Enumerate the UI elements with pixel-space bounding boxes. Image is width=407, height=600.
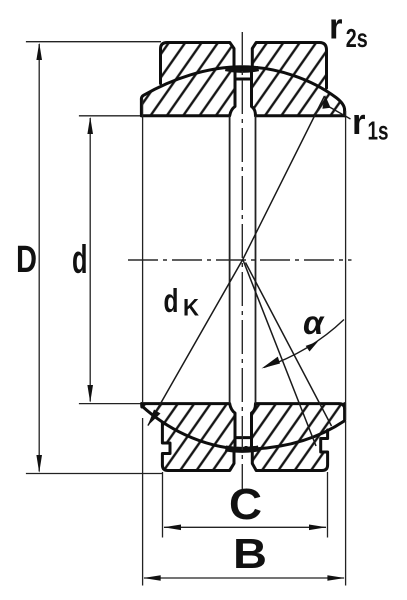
inner ring bottom faces xyxy=(140,404,143,407)
dimension D xyxy=(26,42,162,474)
r1s leader xyxy=(330,107,351,119)
B extension upper parts (thin lines over bearing region) xyxy=(143,99,346,420)
bore void lube hole walls xyxy=(230,116,256,404)
svg-text:C: C xyxy=(229,480,262,529)
svg-text:r: r xyxy=(329,6,343,47)
dimension B xyxy=(143,418,346,586)
svg-text:B: B xyxy=(233,530,267,577)
bearing top half hatched section (outer ring top block + inner ring top section) xyxy=(141,67,344,116)
thick outlines: bottom xyxy=(142,404,345,471)
alpha curved arrow xyxy=(264,320,344,368)
svg-text:d: d xyxy=(164,282,179,319)
lube groove band top xyxy=(226,69,259,71)
outer ring bottom block outline right xyxy=(252,430,327,471)
inner ring lube crossbar bottom xyxy=(235,436,252,439)
bottom sphere arc xyxy=(142,406,345,449)
centerlines xyxy=(128,32,352,492)
svg-text:D: D xyxy=(16,239,37,281)
svg-text:α: α xyxy=(303,304,325,341)
inner ring top faces xyxy=(140,99,143,116)
svg-text:d: d xyxy=(72,238,88,282)
svg-text:1s: 1s xyxy=(368,116,389,146)
outer ring top block outline xyxy=(161,43,235,84)
bore top line with lube flare xyxy=(141,114,229,117)
thick outlines: top xyxy=(141,43,344,116)
alpha rays xyxy=(243,260,332,447)
svg-text:2s: 2s xyxy=(346,23,368,53)
lube groove band bottom xyxy=(226,448,259,450)
top sphere arc xyxy=(141,67,344,110)
dimension d xyxy=(79,116,140,404)
dK diagonal line (sphere diameter) xyxy=(148,96,325,426)
dimension C xyxy=(163,472,328,538)
bore bottom line with lube flare xyxy=(142,402,230,405)
inner ring lube crossbar top xyxy=(235,78,252,81)
svg-text:r: r xyxy=(352,101,366,142)
outer ring bottom block outline left xyxy=(162,423,234,471)
svg-text:K: K xyxy=(183,295,200,322)
bearing bottom half hatched section xyxy=(142,404,345,450)
